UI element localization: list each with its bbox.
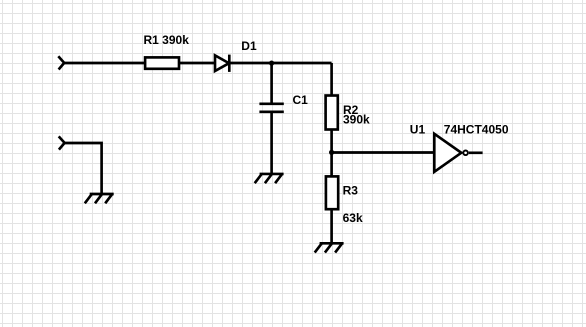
buffer U1: [434, 134, 468, 172]
ground: [255, 174, 284, 183]
svg-text:C1: C1: [293, 93, 309, 107]
wire: [332, 151, 435, 154]
svg-text:74HCT4050: 74HCT4050: [444, 122, 509, 136]
resistor R1: [145, 57, 179, 68]
ground: [85, 194, 114, 203]
wire: [180, 62, 215, 65]
connector J2: [59, 136, 65, 149]
wire: [270, 112, 273, 174]
node B: [329, 150, 334, 155]
svg-text:R3: R3: [343, 183, 359, 197]
wire: [330, 63, 333, 96]
capacitor C1: [259, 104, 283, 112]
svg-text:D1: D1: [241, 39, 257, 53]
wire: [64, 62, 145, 65]
svg-text:63k: 63k: [343, 211, 363, 225]
wire: [270, 63, 273, 104]
diode D1: [215, 55, 229, 72]
wire: [330, 130, 333, 177]
wire: [330, 209, 333, 243]
svg-text:390k: 390k: [343, 113, 370, 127]
ground: [315, 243, 344, 252]
connector J1: [58, 56, 64, 69]
svg-text:U1: U1: [410, 122, 426, 136]
wire: [469, 151, 483, 154]
resistor R3: [326, 176, 338, 209]
wire: [229, 62, 331, 65]
wire: [65, 143, 102, 194]
node A: [269, 61, 274, 66]
svg-text:R1 390k: R1 390k: [144, 33, 190, 47]
resistor R2: [326, 96, 338, 130]
